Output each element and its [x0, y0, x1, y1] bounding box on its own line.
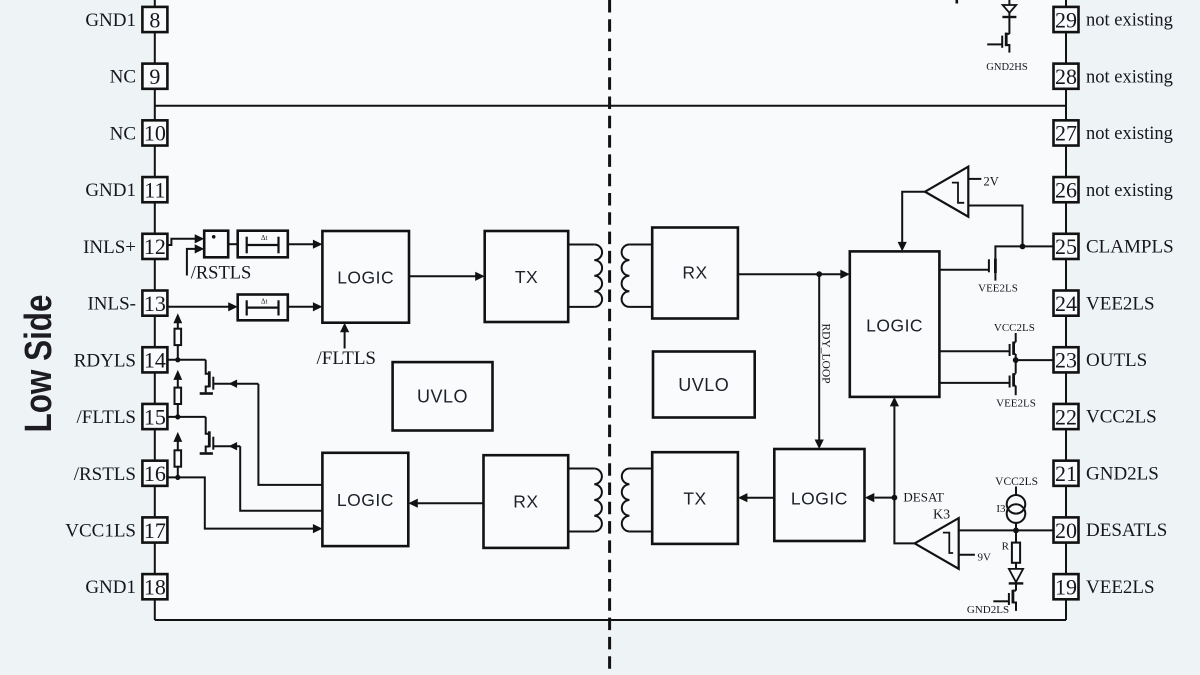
wire: current source top lead	[1015, 487, 1017, 496]
svg-text:23: 23	[1055, 348, 1077, 373]
node: CLAMPLS junction	[1020, 244, 1026, 250]
wire: upper FET source to OUTLS node	[1015, 354, 1017, 360]
pin 24 VEE2LS	[1054, 291, 1155, 316]
svg-text:not existing: not existing	[1086, 181, 1173, 201]
wire: dt1 to LOGIC1	[288, 240, 323, 249]
comparator K1 (2V clamp)	[925, 167, 968, 217]
wire: RDY loop vertical to LOGIC4	[815, 274, 824, 449]
wire: upper output FET drain	[1015, 333, 1017, 342]
svg-text:LOGIC: LOGIC	[337, 490, 394, 510]
svg-text:9: 9	[149, 64, 160, 89]
wire: DESATLS node to resistor R	[1015, 530, 1017, 542]
net DESAT label	[903, 489, 944, 504]
undervoltage lockout block UVLO1 (input side)	[393, 362, 493, 430]
svg-text:NC: NC	[110, 123, 136, 144]
undervoltage lockout block UVLO2 (output side)	[653, 352, 755, 418]
wire: resistor R to diode	[1015, 563, 1017, 569]
svg-text:VEE2LS: VEE2LS	[1086, 577, 1155, 598]
svg-text:10: 10	[144, 121, 166, 146]
wire: pin12 INLS+ to pulse-filter upper input	[167, 234, 204, 245]
svg-text:VEE2LS: VEE2LS	[996, 397, 1036, 409]
wire: lower output FET drain	[1015, 360, 1017, 373]
wire: bottom chip boundary	[155, 619, 1066, 621]
net 2V reference stub	[968, 174, 998, 188]
svg-text:not existing: not existing	[1086, 11, 1173, 31]
svg-text:DESAT: DESAT	[903, 489, 944, 504]
svg-text:VEE2LS: VEE2LS	[1086, 293, 1155, 314]
transistor M-HS (GND2HS clamp FET)	[987, 33, 1009, 53]
net GND2HS label	[986, 62, 1028, 73]
svg-text:21: 21	[1055, 461, 1077, 486]
svg-text:/RSTLS: /RSTLS	[74, 464, 136, 485]
svg-text:RDY_LOOP: RDY_LOOP	[820, 324, 832, 384]
wire: TX2 primary top lead	[629, 468, 652, 470]
svg-text:14: 14	[144, 348, 166, 373]
svg-text:9V: 9V	[978, 551, 992, 563]
svg-text:8: 8	[149, 7, 160, 32]
svg-text:17: 17	[144, 518, 166, 543]
wire: K1 input from CLAMPLS node	[968, 206, 1022, 247]
wire: pulse filter to deglitcher dt1	[228, 243, 238, 245]
wire: OUTLS node to pin23	[1016, 359, 1054, 361]
svg-text:K3: K3	[933, 508, 950, 523]
transmitter block TX1	[485, 231, 569, 322]
wire: dt2 to LOGIC1	[288, 302, 323, 311]
svg-text:LOGIC: LOGIC	[337, 268, 394, 288]
svg-text:25: 25	[1055, 234, 1077, 259]
pin 12 INLS+	[83, 234, 167, 259]
svg-text:/FLTLS: /FLTLS	[77, 407, 137, 428]
resistor R16 (/RSTLS pull-up) with supply arrow	[173, 432, 182, 480]
wire: pin13 INLS- to deglitcher dt2	[167, 302, 237, 311]
transformer T1 secondary coil	[622, 245, 630, 307]
svg-text:INLS-: INLS-	[87, 294, 136, 315]
svg-text:22: 22	[1055, 404, 1077, 429]
pin 22 VCC2LS	[1054, 404, 1157, 429]
node: RDY loop junction	[816, 271, 822, 277]
wire: current source to DESATLS node	[1015, 523, 1017, 531]
svg-text:INLS+: INLS+	[83, 237, 136, 258]
pin 15 /FLTLS	[77, 404, 168, 429]
pin 17 VCC1LS	[65, 517, 167, 542]
svg-text:27: 27	[1055, 121, 1077, 146]
svg-text:18: 18	[144, 575, 166, 600]
net K3 label	[933, 508, 950, 523]
svg-text:UVLO: UVLO	[678, 375, 729, 395]
wire: RX2 secondary bottom lead	[568, 531, 594, 533]
svg-text:LOGIC: LOGIC	[866, 316, 923, 336]
net VEE2LS label (output stage)	[996, 397, 1036, 409]
svg-text:/FLTLS: /FLTLS	[317, 348, 377, 369]
wire: DESAT vertical to LOGIC2 bottom	[890, 397, 899, 498]
wire: LOGIC4 to TX2	[738, 493, 774, 502]
svg-text:2V: 2V	[984, 174, 999, 188]
wire: diode to discharge FET	[1015, 583, 1017, 590]
wire: LOGIC1 to TX1	[409, 272, 485, 281]
svg-text:Δt: Δt	[261, 234, 268, 242]
wire: pin16 /RSTLS net to LOGIC3	[167, 477, 322, 533]
pin 11 GND1	[85, 177, 167, 202]
svg-text:GND1: GND1	[85, 577, 136, 598]
pulse filter box (dot symbol)	[204, 231, 228, 258]
transistor M4 (DESAT discharge FET)	[993, 590, 1016, 611]
pin 19 VEE2LS	[1054, 574, 1155, 599]
diode D2 (DESAT discharge)	[1009, 569, 1024, 584]
net RDY_LOOP label	[820, 324, 832, 384]
svg-text:GND1: GND1	[85, 180, 136, 201]
svg-text:RDYLS: RDYLS	[74, 350, 136, 371]
svg-text:VEE2LS: VEE2LS	[978, 283, 1018, 295]
transistor M2 (pull-up output FET)	[939, 342, 1015, 356]
wire: lower FET source	[1015, 386, 1017, 396]
wire: /RSTLS stub to pulse-filter lower input	[187, 244, 204, 275]
resistor R14 (RDYLS pull-up) with supply arrow	[173, 313, 182, 362]
logic block U1 (input LOGIC)	[322, 231, 409, 323]
net VCC2LS label (high-side supply of output stage)	[994, 322, 1035, 334]
pin 26 not existing	[1054, 177, 1173, 202]
transistor M5 (RDYLS open-drain FET)	[200, 360, 259, 394]
pin 29 not existing	[1054, 7, 1173, 32]
net VEE2LS label (clamp source)	[978, 283, 1018, 295]
svg-text:Δt: Δt	[261, 298, 268, 306]
receiver block RX2	[484, 455, 569, 548]
net VCC2LS label (current source supply)	[995, 476, 1038, 488]
svg-text:NC: NC	[110, 67, 136, 88]
resistor R (DESAT blanking)	[1002, 541, 1020, 563]
svg-text:/RSTLS: /RSTLS	[191, 263, 252, 283]
wire: M6 gate feed from LOGIC3	[240, 446, 322, 511]
transmitter block TX2	[652, 452, 738, 544]
pin 10 NC	[110, 120, 168, 145]
pin 9 NC	[110, 64, 168, 89]
comparator K3 (DESAT 9V)	[915, 518, 959, 569]
svg-text:OUTLS: OUTLS	[1086, 350, 1147, 371]
net GND2LS label	[967, 604, 1009, 616]
svg-text:VCC2LS: VCC2LS	[995, 476, 1038, 488]
wire: left chip boundary (pin column 8-18)	[154, 0, 156, 620]
wire: DESAT to LOGIC4	[865, 493, 895, 502]
transistor M6 (/FLTLS open-drain FET)	[200, 417, 241, 454]
diode D-HS	[1002, 5, 1016, 17]
transformer T2 secondary coil	[594, 469, 602, 532]
transformer T1 primary coil	[594, 245, 602, 307]
svg-text:LOGIC: LOGIC	[791, 489, 848, 509]
svg-text:11: 11	[144, 177, 165, 202]
svg-text:VCC2LS: VCC2LS	[994, 322, 1035, 334]
pin 23 OUTLS	[1054, 347, 1148, 372]
svg-text:CLAMPLS: CLAMPLS	[1086, 237, 1174, 258]
wire: pin15 /FLTLS net	[167, 416, 205, 418]
wire: right chip boundary (pin column 19-29)	[1065, 0, 1067, 620]
current source I3	[996, 495, 1025, 523]
node: DESATLS junction	[1013, 528, 1019, 534]
pin 28 not existing	[1054, 64, 1173, 89]
svg-text:28: 28	[1055, 64, 1077, 89]
wire: TX2 primary bottom lead	[629, 531, 652, 533]
isolation barrier (center dashed line)	[608, 0, 611, 675]
pin 16 /RSTLS	[74, 461, 168, 486]
transistor M1 (Miller clamp FET)	[939, 258, 995, 280]
svg-text:13: 13	[144, 291, 166, 316]
svg-text:RX: RX	[513, 492, 538, 512]
svg-text:TX: TX	[515, 267, 538, 287]
pin 25 CLAMPLS	[1054, 234, 1174, 259]
wire: RX1 secondary top lead	[629, 244, 652, 246]
pin 13 INLS-	[87, 291, 167, 316]
svg-text:GND2LS: GND2LS	[967, 604, 1009, 616]
deglitch filter dt2	[238, 295, 288, 321]
wire: TX1 primary top lead	[568, 244, 594, 246]
wire: HS diode anode lead	[1008, 0, 1010, 5]
svg-text:29: 29	[1055, 7, 1077, 32]
svg-text:GND1: GND1	[85, 10, 136, 31]
transformer T2 primary coil	[622, 469, 630, 532]
svg-text:I3: I3	[996, 503, 1006, 515]
net 9V reference stub	[959, 551, 991, 563]
svg-text:15: 15	[144, 404, 166, 429]
wire: RX1 output to LOGIC2	[738, 270, 850, 279]
svg-text:19: 19	[1055, 575, 1077, 600]
pin 20 DESATLS	[1054, 517, 1168, 542]
net /FLTLS label with arrow into LOGIC1	[317, 323, 377, 369]
svg-text:Low Side: Low Side	[18, 295, 60, 433]
wire: K1 output to LOGIC2 top	[898, 192, 925, 252]
resistor R15 (/FLTLS pull-up) with supply arrow	[173, 370, 182, 420]
node: OUTLS junction	[1013, 357, 1019, 363]
logic block U4 (feedback LOGIC)	[774, 449, 864, 541]
chip interior background	[155, 0, 1066, 620]
svg-text:UVLO: UVLO	[417, 387, 468, 407]
svg-text:RX: RX	[682, 263, 707, 283]
wire: K3 output up to DESAT node	[894, 498, 914, 544]
svg-text:24: 24	[1055, 291, 1077, 316]
svg-text:VCC2LS: VCC2LS	[1086, 407, 1157, 428]
logic block U3 (status LOGIC)	[322, 453, 408, 546]
net Low Side section label	[18, 295, 60, 433]
wire: RX2 secondary top lead	[568, 468, 594, 470]
svg-text:20: 20	[1055, 518, 1077, 543]
pin 18 GND1	[85, 574, 167, 599]
wire: DESATLS pin20 net	[959, 529, 1054, 531]
wire: high-side/low-side boundary line	[155, 105, 1066, 107]
receiver block RX1	[652, 228, 738, 319]
net /RSTLS label (input gate)	[191, 263, 252, 283]
svg-text:DESATLS: DESATLS	[1086, 520, 1167, 541]
svg-text:26: 26	[1055, 177, 1077, 202]
svg-text:not existing: not existing	[1086, 67, 1173, 87]
svg-text:R: R	[1002, 541, 1010, 553]
svg-text:GND2LS: GND2LS	[1086, 463, 1159, 484]
transistor M3 (pull-down output FET)	[939, 373, 1015, 387]
wire: RX1 secondary bottom lead	[629, 306, 652, 308]
pin 14 RDYLS	[74, 347, 168, 372]
svg-text:16: 16	[144, 461, 166, 486]
svg-text:12: 12	[144, 234, 166, 259]
pin 21 GND2LS	[1054, 461, 1159, 486]
pin 8 GND1	[85, 7, 167, 32]
wire: clamp FET drain	[995, 246, 1022, 258]
svg-text:TX: TX	[683, 489, 706, 509]
wire: TX1 primary bottom lead	[568, 306, 594, 308]
wire: M5 gate feed from LOGIC3	[258, 384, 322, 485]
wire: HS diode to transistor	[1008, 17, 1010, 34]
logic block U2 (output LOGIC)	[850, 251, 940, 397]
pin 27 not existing	[1054, 120, 1173, 145]
wire: RX2 to LOGIC3	[408, 499, 483, 508]
deglitch filter dt1	[238, 231, 288, 258]
svg-text:GND2HS: GND2HS	[986, 62, 1028, 73]
wire: CLAMPLS pin25 net	[1023, 245, 1054, 247]
wire: pin14 RDYLS net	[167, 359, 205, 361]
svg-text:not existing: not existing	[1086, 124, 1173, 144]
wire: high-side remnant stub top-center	[955, 0, 958, 4]
svg-text:VCC1LS: VCC1LS	[65, 520, 136, 541]
node: DESAT junction	[892, 495, 898, 501]
